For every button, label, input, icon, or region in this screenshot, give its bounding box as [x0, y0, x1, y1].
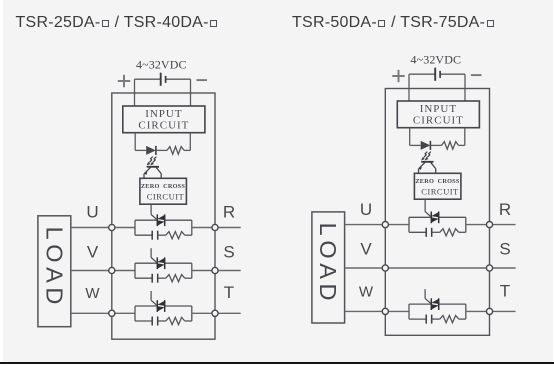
svg-text:U: U: [360, 200, 372, 219]
svg-text:CIRCUIT: CIRCUIT: [413, 115, 464, 127]
svg-text:INPUT: INPUT: [420, 103, 457, 115]
svg-text:S: S: [223, 242, 234, 261]
svg-text:LOAD: LOAD: [315, 223, 341, 305]
svg-text:T: T: [500, 281, 510, 300]
svg-text:CIRCUIT: CIRCUIT: [421, 186, 459, 196]
svg-text:4~32VDC: 4~32VDC: [136, 57, 187, 71]
svg-text:U: U: [86, 203, 98, 222]
svg-text:INPUT: INPUT: [145, 108, 182, 120]
svg-text:CIRCUIT: CIRCUIT: [147, 191, 185, 201]
svg-text:CIRCUIT: CIRCUIT: [138, 120, 189, 132]
svg-text:W: W: [85, 285, 100, 302]
svg-text:T: T: [224, 283, 234, 302]
svg-text:S: S: [499, 240, 510, 259]
svg-text:LOAD: LOAD: [41, 227, 67, 309]
svg-text:ZERO CROSS: ZERO CROSS: [415, 178, 459, 185]
svg-text:R: R: [499, 200, 511, 219]
svg-text:4~32VDC: 4~32VDC: [411, 52, 462, 66]
svg-text:R: R: [223, 203, 235, 222]
svg-text:V: V: [360, 240, 372, 259]
svg-text:V: V: [87, 242, 99, 261]
svg-text:W: W: [359, 283, 374, 300]
svg-text:ZERO CROSS: ZERO CROSS: [141, 183, 185, 190]
